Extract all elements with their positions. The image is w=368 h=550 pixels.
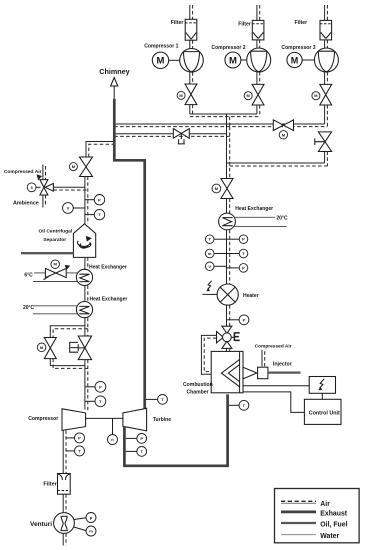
SECTION: right column <box>201 124 288 374</box>
svg-text:Compressor: Compressor <box>28 416 58 422</box>
wire oil drain <box>21 252 73 254</box>
filter F1 <box>185 19 197 40</box>
instrument P turbine inlet <box>126 437 137 439</box>
svg-text:Separator: Separator <box>43 237 66 243</box>
wire EV to combustion chamber <box>226 348 228 351</box>
wire separator to HE1 <box>84 257 86 269</box>
wire bypass split <box>50 326 85 338</box>
combustion chamber <box>211 351 243 392</box>
wire line B from chimney to train 3 <box>114 123 324 125</box>
svg-text:6°C: 6°C <box>24 272 33 278</box>
svg-text:Ambience: Ambience <box>13 201 39 207</box>
svg-text:M: M <box>291 55 299 65</box>
valve HV1 manual on line C <box>173 129 189 139</box>
svg-text:Chimney: Chimney <box>99 67 129 76</box>
wire chamber to control unit <box>243 392 304 413</box>
svg-text:Control Unit: Control Unit <box>309 411 340 417</box>
wire line D to main vertical <box>227 162 325 164</box>
svg-text:Filter: Filter <box>43 482 57 488</box>
valve MV1 motorized <box>185 84 197 105</box>
svg-text:P: P <box>242 265 245 270</box>
wire header A connecting trains 1-2 <box>190 113 257 115</box>
valve MV6 water 6C <box>51 260 60 269</box>
heater <box>217 284 238 305</box>
svg-text:Oil Centrifugal: Oil Centrifugal <box>39 228 73 234</box>
wire bypass rejoin <box>50 359 85 366</box>
instrument m left row2 <box>214 253 226 255</box>
wire EV left port bypass <box>201 335 216 374</box>
valve HV2 manual on train 3 drop <box>318 132 331 152</box>
injector nozzle <box>243 367 257 379</box>
valve MV5 motorized vent <box>80 157 93 177</box>
svg-text:Filter: Filter <box>238 22 251 28</box>
wire filter to compressor 1 <box>189 40 191 49</box>
svg-text:M: M <box>229 55 237 66</box>
valve EV 3-way electric <box>217 326 232 348</box>
wire valve 1 to header <box>189 105 191 114</box>
valve MV2 motorized <box>252 84 264 105</box>
instrument m venturi <box>74 527 87 531</box>
wire drop from header A to line B <box>226 114 228 124</box>
instrument T1 <box>66 450 75 452</box>
instrument V <box>73 207 85 209</box>
wire fuel line <box>268 371 301 373</box>
igniter spark box <box>309 377 335 394</box>
flow arrow <box>37 174 42 180</box>
svg-text:m: m <box>208 251 212 256</box>
instrument P right row1 <box>227 238 240 240</box>
wire main vertical upper <box>226 124 228 179</box>
svg-text:Combustion: Combustion <box>183 382 213 388</box>
legend oil fuel <box>281 522 316 524</box>
svg-text:Chamber: Chamber <box>187 389 209 395</box>
svg-text:Heater: Heater <box>243 293 259 299</box>
wire HE2 to bypass split <box>84 318 86 326</box>
svg-text:P: P <box>242 237 245 242</box>
heat exchanger HE2 <box>76 302 92 318</box>
wire main column upper <box>84 177 86 225</box>
wire filter to venturi <box>62 494 64 513</box>
wire valve to HE3 <box>226 199 228 214</box>
wire HE3 down to heater <box>226 230 228 284</box>
wire air intake train 3 <box>324 5 326 20</box>
svg-text:Compressor 2: Compressor 2 <box>211 45 245 51</box>
svg-text:P: P <box>78 436 81 441</box>
wire 3-way valve to main column <box>53 186 85 188</box>
SECTION: top compressor trains <box>144 5 338 127</box>
instrument 3 <box>36 186 41 188</box>
instrument T left row1 <box>214 238 226 240</box>
electric supply heater <box>207 281 211 290</box>
valve MV4 motorized on line B <box>273 120 293 131</box>
svg-text:Venturi: Venturi <box>30 521 52 528</box>
SECTION: headers <box>114 114 331 166</box>
SECTION: legend <box>275 489 360 543</box>
instrument T right row2 <box>227 253 240 255</box>
svg-text:Compressed Air: Compressed Air <box>255 344 292 350</box>
svg-text:P: P <box>98 197 101 202</box>
instrument p venturi <box>74 518 86 520</box>
svg-text:P: P <box>243 317 246 322</box>
wire chamber to igniter <box>243 385 309 387</box>
instrument P right row3 <box>227 267 240 269</box>
instrument P <box>85 199 95 201</box>
wire compressor 1 to valve <box>189 72 191 84</box>
valve CV1 piston actuated <box>84 326 86 336</box>
svg-text:Compressor 3: Compressor 3 <box>281 45 315 51</box>
filter F4 inlet <box>58 474 71 495</box>
wire heater to 3-way valve <box>226 305 228 326</box>
svg-text:V: V <box>208 264 211 269</box>
wire filter to compressor 3 <box>324 40 326 49</box>
svg-text:Filter: Filter <box>295 20 308 26</box>
svg-text:Water: Water <box>320 533 339 540</box>
instrument T2 <box>85 400 95 402</box>
compressor C3 <box>314 48 338 72</box>
svg-text:m: m <box>89 529 93 534</box>
wire to compressor inlet top <box>84 360 86 410</box>
oil centrifugal separator <box>73 224 95 258</box>
svg-text:Injector: Injector <box>273 362 292 368</box>
svg-text:Oil, Fuel: Oil, Fuel <box>320 522 347 529</box>
valve MV8 motorized <box>221 179 233 199</box>
compressor C1 <box>180 49 204 73</box>
svg-text:Compressor 1: Compressor 1 <box>144 44 178 50</box>
instrument T below chamber <box>229 404 239 406</box>
wire igniter to control unit <box>321 393 323 399</box>
valve MV3 motorized <box>320 84 332 105</box>
wire air intake train 2 <box>256 5 258 20</box>
svg-text:Heat Exchanger: Heat Exchanger <box>90 296 128 302</box>
svg-text:P: P <box>99 384 102 389</box>
motor M1 <box>169 59 180 61</box>
turbine <box>123 408 147 431</box>
svg-text:Heat Exchanger: Heat Exchanger <box>89 264 127 270</box>
instrument n on shaft <box>112 418 114 434</box>
svg-text:P: P <box>140 436 143 441</box>
instrument t on turbine exhaust <box>146 398 158 400</box>
legend exhaust <box>281 511 316 514</box>
wire train 3 drop to line D <box>324 152 326 164</box>
injector <box>258 367 268 379</box>
valve XV 3-way ambience <box>40 180 54 195</box>
SECTION: chimney and exhaust <box>86 67 249 466</box>
instrument V left row3 <box>214 265 226 267</box>
control unit <box>304 399 341 424</box>
legend air <box>281 502 316 504</box>
instrument P below heater <box>227 319 240 321</box>
svg-text:M: M <box>157 56 165 67</box>
motor M2 <box>241 59 247 61</box>
wire exhaust combustion chamber to turbine <box>124 394 227 465</box>
valve MV7 motorized bypass <box>44 338 56 359</box>
heat exchanger HE3 <box>219 213 236 230</box>
wire compressor 3 to valve <box>324 72 326 84</box>
svg-text:Filter: Filter <box>171 20 184 26</box>
svg-text:20°C: 20°C <box>23 305 35 311</box>
wire air intake train 1 <box>189 5 191 19</box>
instrument P2 <box>85 386 95 388</box>
filter F2 <box>252 20 264 40</box>
wire vent line to chimney <box>86 142 113 158</box>
svg-text:Air: Air <box>320 501 330 508</box>
wire valve 3 down to line B <box>324 105 326 124</box>
legend water <box>281 534 316 536</box>
compressor C2 <box>247 48 271 72</box>
SECTION: left column <box>4 142 127 546</box>
instrument P1 <box>66 437 75 439</box>
heat exchanger HE1 <box>76 269 92 285</box>
wire shaft compressor-turbine <box>86 417 123 419</box>
legend box <box>275 489 360 543</box>
venturi <box>54 513 75 534</box>
svg-text:20°C: 20°C <box>276 215 288 221</box>
SECTION: combustion <box>183 344 341 425</box>
wire compressor to filter <box>62 430 64 473</box>
svg-text:Compressed Air: Compressed Air <box>4 169 42 175</box>
compressor main <box>62 409 86 431</box>
node 20C right <box>234 216 275 218</box>
wire exhaust chimney riser <box>114 99 144 409</box>
instrument T turbine inlet <box>126 450 137 452</box>
svg-text:Exhaust: Exhaust <box>320 511 348 518</box>
wire compressor 2 to valve <box>256 72 258 84</box>
wire venturi inlet <box>62 533 64 545</box>
svg-text:Turbine: Turbine <box>153 417 171 423</box>
instrument T <box>85 214 95 216</box>
wire HE1 to HE2 <box>84 286 86 302</box>
svg-text:Heat Exchanger: Heat Exchanger <box>235 206 273 212</box>
motor M3 <box>302 59 314 61</box>
filter F3 <box>320 20 332 40</box>
wire filter to compressor 2 <box>256 40 258 49</box>
svg-text:V: V <box>67 206 70 211</box>
wire valve 2 to header <box>256 105 258 114</box>
wire line C from chimney to main drop <box>114 133 226 135</box>
